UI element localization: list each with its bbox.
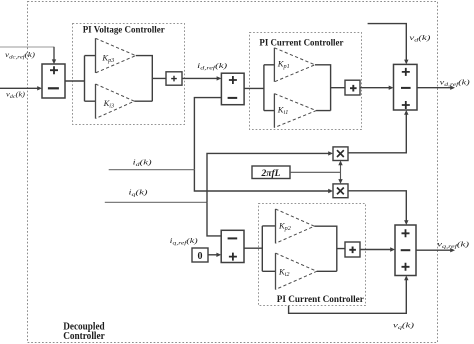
svg-text:iq,ref(k): iq,ref(k) — [170, 236, 199, 247]
dashed box: PI Current Controller (d-axis) — [250, 33, 362, 130]
wire: vq(k) feedforward into S6 bottom — [289, 279, 407, 313]
wire: iq branch up to upper multiplier — [207, 153, 329, 202]
constant block 0 — [192, 248, 208, 262]
gain box 2pifL — [252, 166, 290, 179]
summing junction S5 (q current error) — [221, 230, 244, 262]
adder box A1 (+) after voltage controller — [166, 72, 182, 85]
summing junction S3 (d-axis output sum) — [394, 64, 418, 110]
wire: iq(k) input line — [105, 201, 207, 203]
svg-text:Kp1: Kp1 — [277, 59, 290, 71]
svg-text:PI Current Controller: PI Current Controller — [277, 295, 365, 305]
svg-text:2πfL: 2πfL — [261, 169, 281, 179]
svg-text:id(k): id(k) — [133, 157, 153, 168]
wire: Kp1/Ki1 outputs collector — [315, 65, 345, 111]
multiplier M2 (lower) — [333, 184, 348, 198]
adder box A3 (+) after q current controller — [345, 242, 360, 257]
wire: id(k) input line — [109, 169, 195, 171]
wire: S2 output to gain branch — [244, 65, 274, 111]
svg-text:Ki2: Ki2 — [278, 266, 290, 278]
svg-text:Kp3: Kp3 — [101, 53, 114, 65]
wire: S5 output to gain branch — [244, 226, 276, 271]
gain block Kp1 — [274, 48, 315, 82]
summing junction S2 (d current error) — [221, 73, 244, 105]
wire: S1 output to gain branch — [65, 56, 96, 102]
svg-text:id,ref(k): id,ref(k) — [197, 61, 228, 72]
gain block Ki1 — [274, 94, 316, 128]
dashed box: PI Current Controller (q-axis) — [259, 204, 366, 306]
svg-text:iq(k): iq(k) — [129, 188, 149, 199]
svg-text:Ki3: Ki3 — [103, 98, 115, 110]
wire: id feedback up into S2 minus input — [194, 98, 221, 170]
gain block Ki2 — [276, 253, 317, 289]
wire: vd(k) feedforward into S3 top — [368, 24, 407, 61]
summing junction S1 (voltage error) — [42, 64, 65, 98]
svg-text:Kp2: Kp2 — [278, 221, 291, 233]
svg-text:vd(k): vd(k) — [409, 33, 431, 44]
wire: iq branch down into S5 minus input — [207, 202, 221, 236]
wire: 0 to S5 plus input — [208, 254, 218, 256]
svg-text:Ki1: Ki1 — [277, 104, 289, 116]
wire: vdc input — [0, 87, 38, 89]
wire: 2pifL output to both multipliers — [290, 164, 341, 180]
wire: M1 output to S3 bottom — [348, 114, 406, 153]
svg-text:Controller: Controller — [63, 331, 105, 342]
svg-text:vdc,ref(k): vdc,ref(k) — [5, 51, 36, 61]
svg-text:vq,ref(k): vq,ref(k) — [437, 240, 470, 251]
summing junction S6 (q-axis output sum) — [395, 225, 416, 276]
svg-text:PI Current Controller: PI Current Controller — [259, 39, 344, 49]
wire: id branch down to lower multiplier — [194, 170, 329, 191]
svg-text:vq(k): vq(k) — [393, 320, 415, 331]
wire: vdc,ref input — [0, 46, 54, 48]
svg-text:0: 0 — [198, 251, 203, 262]
gain block Ki3 — [96, 84, 135, 119]
wire: Kp2/Ki2 outputs collector — [314, 226, 345, 271]
wire: S6 output vq,ref — [416, 249, 451, 251]
svg-text:PI Voltage Controller: PI Voltage Controller — [83, 25, 166, 35]
wire: A3 output to S6 — [360, 249, 392, 251]
wire: M2 output to S6 top — [348, 191, 406, 221]
dashed box: PI Voltage Controller — [73, 24, 185, 125]
multiplier M1 (upper) — [333, 147, 348, 161]
gain block Kp3 — [96, 38, 136, 73]
wire: Kp3/Ki3 outputs collector — [134, 56, 166, 102]
wire: id,ref to S2 — [182, 77, 218, 79]
wire: S3 output vd,ref — [417, 87, 451, 89]
adder box A2 (+) after d current controller — [345, 80, 360, 95]
svg-text:vdc(k): vdc(k) — [6, 90, 26, 100]
wire: A2 output to S3 — [360, 87, 390, 89]
gain block Kp2 — [276, 209, 315, 243]
svg-text:vd,ref(k): vd,ref(k) — [440, 77, 471, 88]
